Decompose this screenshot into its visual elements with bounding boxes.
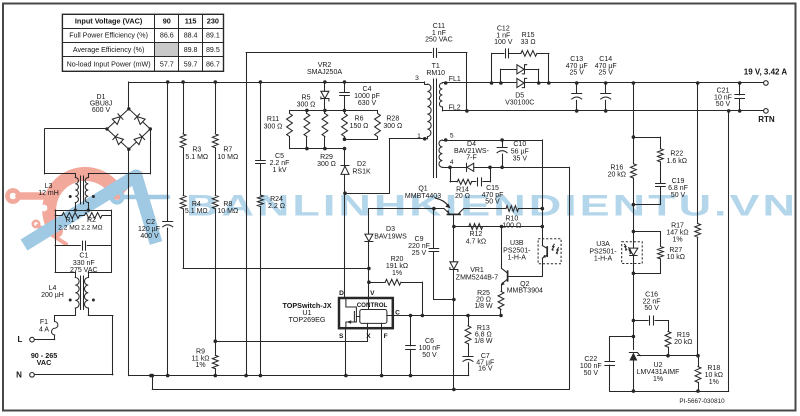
svg-text:100 V: 100 V: [494, 39, 513, 46]
svg-text:D5: D5: [515, 93, 524, 100]
svg-text:C10: C10: [513, 141, 526, 148]
svg-text:PS2501-: PS2501-: [589, 248, 617, 255]
svg-text:100 Ω: 100 Ω: [502, 222, 521, 229]
svg-text:35 V: 35 V: [513, 155, 528, 162]
svg-text:PS2501-: PS2501-: [503, 247, 531, 254]
svg-text:L4: L4: [49, 285, 57, 292]
svg-text:SMAJ250A: SMAJ250A: [307, 69, 342, 76]
svg-text:4: 4: [450, 159, 454, 166]
svg-text:300 Ω: 300 Ω: [264, 123, 283, 130]
svg-text:VAC: VAC: [37, 358, 52, 367]
svg-text:59.7: 59.7: [184, 61, 198, 69]
svg-text:R6: R6: [355, 116, 364, 123]
svg-text:R2: R2: [87, 217, 96, 224]
svg-text:R19: R19: [677, 332, 690, 339]
svg-text:PI-5667-030810: PI-5667-030810: [679, 398, 725, 405]
svg-text:R29: R29: [320, 154, 333, 161]
svg-text:57.7: 57.7: [160, 61, 174, 69]
svg-text:C22: C22: [584, 356, 597, 363]
svg-text:16 V: 16 V: [478, 366, 493, 373]
svg-text:2.2 MΩ: 2.2 MΩ: [58, 225, 79, 232]
svg-text:C11: C11: [433, 23, 445, 30]
svg-text:C19: C19: [672, 178, 685, 185]
svg-text:Q1: Q1: [418, 185, 427, 192]
svg-text:89.8: 89.8: [184, 46, 198, 54]
svg-text:F1: F1: [40, 319, 48, 326]
svg-text:ZMM5244B-7: ZMM5244B-7: [456, 274, 499, 281]
svg-text:T1: T1: [432, 63, 440, 70]
svg-text:F: F: [384, 333, 388, 340]
svg-text:1-H-A: 1-H-A: [508, 255, 527, 262]
svg-text:1%: 1%: [653, 376, 663, 383]
svg-text:1.6 kΩ: 1.6 kΩ: [667, 158, 687, 165]
svg-text:FL1: FL1: [449, 76, 461, 83]
svg-text:1 kV: 1 kV: [272, 167, 286, 174]
svg-text:R7: R7: [223, 147, 232, 154]
svg-text:200 µH: 200 µH: [41, 292, 64, 299]
svg-text:300 Ω: 300 Ω: [297, 102, 316, 109]
svg-text:630 V: 630 V: [358, 100, 377, 107]
svg-text:FL2: FL2: [449, 104, 461, 111]
svg-text:230: 230: [207, 17, 219, 26]
svg-text:TOP269EG: TOP269EG: [288, 315, 325, 324]
svg-text:L: L: [18, 335, 23, 344]
svg-text:10 MΩ: 10 MΩ: [217, 208, 238, 215]
svg-text:88.4: 88.4: [184, 32, 198, 40]
svg-text:1%: 1%: [392, 270, 402, 277]
svg-text:R8: R8: [223, 201, 232, 208]
svg-text:25 V: 25 V: [569, 70, 584, 77]
svg-text:330 nF: 330 nF: [73, 260, 95, 267]
svg-text:N: N: [16, 370, 22, 379]
svg-text:4 A: 4 A: [39, 326, 49, 333]
svg-text:C16: C16: [645, 291, 658, 298]
svg-text:400 V: 400 V: [140, 233, 159, 240]
svg-text:2.2 MΩ: 2.2 MΩ: [81, 225, 102, 232]
svg-text:D3: D3: [386, 226, 395, 233]
svg-text:C5: C5: [275, 153, 284, 160]
svg-text:VR2: VR2: [318, 62, 332, 69]
svg-text:R12: R12: [469, 231, 482, 238]
svg-text:20 Ω: 20 Ω: [455, 193, 470, 200]
svg-text:1%: 1%: [709, 379, 719, 386]
svg-text:5: 5: [450, 132, 454, 139]
svg-text:Average Efficiency (%): Average Efficiency (%): [73, 46, 145, 54]
svg-text:R20: R20: [391, 256, 404, 263]
svg-text:10 MΩ: 10 MΩ: [217, 154, 238, 161]
svg-text:Input Voltage (VAC): Input Voltage (VAC): [75, 17, 143, 26]
svg-text:R5: R5: [302, 94, 311, 101]
svg-text:50 V: 50 V: [671, 192, 686, 199]
svg-text:D: D: [339, 290, 344, 297]
svg-text:33 Ω: 33 Ω: [521, 39, 536, 46]
svg-text:CONTROL: CONTROL: [357, 302, 388, 309]
svg-text:RS1K: RS1K: [352, 168, 371, 175]
svg-text:2.2 nF: 2.2 nF: [270, 160, 290, 167]
svg-text:300 Ω: 300 Ω: [317, 161, 336, 168]
svg-text:R15: R15: [522, 32, 535, 39]
svg-text:115: 115: [185, 17, 197, 26]
svg-text:20 kΩ: 20 kΩ: [608, 172, 626, 179]
svg-text:5.1 MΩ: 5.1 MΩ: [185, 154, 208, 161]
svg-text:1/8 W: 1/8 W: [474, 338, 493, 345]
svg-text:MMBT3904: MMBT3904: [507, 288, 543, 295]
svg-text:1-H-A: 1-H-A: [594, 256, 613, 263]
svg-text:No-load Input Power (mW): No-load Input Power (mW): [67, 61, 151, 69]
svg-text:25 V: 25 V: [598, 70, 613, 77]
svg-text:R10: R10: [505, 215, 518, 222]
svg-text:12 mH: 12 mH: [38, 190, 59, 197]
svg-text:X: X: [366, 333, 371, 340]
svg-text:U3A: U3A: [596, 241, 610, 248]
svg-text:R3: R3: [192, 147, 201, 154]
svg-text:R17: R17: [671, 223, 684, 230]
svg-text:R27: R27: [669, 247, 682, 254]
svg-text:Full Power Efficiency (%): Full Power Efficiency (%): [69, 32, 148, 40]
svg-text:50 V: 50 V: [584, 370, 599, 377]
svg-text:5.1 MΩ: 5.1 MΩ: [185, 208, 208, 215]
svg-text:C14: C14: [599, 56, 612, 63]
svg-text:4.7 kΩ: 4.7 kΩ: [466, 239, 486, 246]
svg-text:V: V: [370, 290, 375, 297]
svg-text:89.1: 89.1: [206, 32, 220, 40]
svg-text:R1: R1: [66, 217, 75, 224]
svg-text:50 V: 50 V: [716, 101, 731, 108]
svg-text:1%: 1%: [672, 236, 682, 243]
svg-text:RM10: RM10: [426, 70, 445, 77]
svg-text:BAV19WS: BAV19WS: [374, 233, 407, 240]
svg-text:R9: R9: [196, 348, 205, 355]
svg-text:U2: U2: [654, 362, 663, 369]
svg-text:56 µF: 56 µF: [511, 148, 529, 155]
svg-text:89.5: 89.5: [206, 46, 220, 54]
svg-text:C2: C2: [146, 219, 155, 226]
svg-text:R4: R4: [192, 201, 201, 208]
svg-text:300 Ω: 300 Ω: [383, 123, 402, 130]
svg-text:LMV431AIMF: LMV431AIMF: [637, 369, 680, 376]
svg-text:C13: C13: [570, 56, 583, 63]
svg-text:275 VAC: 275 VAC: [70, 267, 98, 274]
svg-text:600 V: 600 V: [92, 107, 111, 114]
svg-text:50 V: 50 V: [644, 305, 659, 312]
svg-text:D2: D2: [357, 161, 366, 168]
svg-text:150 Ω: 150 Ω: [350, 123, 369, 130]
svg-text:20 kΩ: 20 kΩ: [674, 339, 692, 346]
svg-text:R16: R16: [610, 164, 623, 171]
svg-text:10 kΩ: 10 kΩ: [667, 254, 685, 261]
svg-text:1000 pF: 1000 pF: [354, 93, 380, 100]
svg-text:MMBT4403: MMBT4403: [405, 193, 441, 200]
svg-text:R28: R28: [386, 116, 399, 123]
svg-text:1: 1: [417, 133, 421, 140]
svg-text:2.2 Ω: 2.2 Ω: [268, 203, 285, 210]
svg-text:50 V: 50 V: [422, 352, 437, 359]
svg-text:R18: R18: [707, 365, 720, 372]
svg-text:86.6: 86.6: [160, 32, 174, 40]
svg-text:50 V: 50 V: [485, 199, 500, 206]
svg-text:V30100C: V30100C: [505, 100, 534, 107]
svg-text:C12: C12: [497, 25, 510, 32]
svg-text:VR1: VR1: [470, 267, 484, 274]
svg-text:6.8 nF: 6.8 nF: [668, 185, 688, 192]
svg-text:90: 90: [163, 17, 171, 26]
svg-text:R11: R11: [267, 116, 279, 123]
svg-text:C: C: [395, 309, 400, 316]
svg-text:L3: L3: [45, 183, 53, 190]
svg-text:1%: 1%: [195, 362, 205, 369]
svg-text:3: 3: [415, 75, 419, 82]
svg-text:19 V, 3.42 A: 19 V, 3.42 A: [744, 68, 788, 77]
svg-text:R22: R22: [670, 151, 683, 158]
svg-text:U3B: U3B: [510, 240, 524, 247]
svg-text:C21: C21: [717, 88, 730, 95]
svg-text:R24: R24: [270, 196, 283, 203]
svg-text:86.7: 86.7: [206, 61, 220, 69]
svg-text:C6: C6: [425, 338, 434, 345]
svg-text:RTN: RTN: [758, 115, 775, 124]
svg-text:7-F: 7-F: [466, 154, 477, 161]
svg-text:S: S: [339, 333, 344, 340]
svg-text:25 V: 25 V: [412, 250, 427, 257]
svg-text:C9: C9: [415, 236, 424, 243]
svg-text:1/8 W: 1/8 W: [474, 303, 493, 310]
svg-text:C1: C1: [79, 252, 88, 259]
svg-text:C4: C4: [363, 86, 372, 93]
svg-text:120 µF: 120 µF: [138, 226, 160, 233]
svg-text:250 VAC: 250 VAC: [425, 37, 453, 44]
